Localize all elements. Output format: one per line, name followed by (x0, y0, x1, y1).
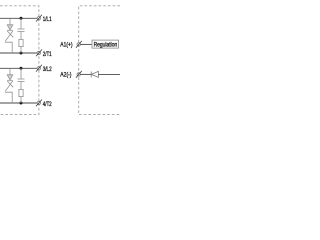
wire 4/T2 bottom (0, 102, 37, 104)
arrester F1 (block1 left branch) (5, 18, 13, 53)
wire diode to edge (98, 73, 120, 75)
wire 2/T1 bottom (0, 52, 37, 54)
junction node on wire 4/T2 (20, 102, 23, 105)
terminal 1/L1 (36, 15, 42, 22)
terminal A1(+) (76, 41, 82, 48)
junction node on wire 3/L2 (20, 67, 23, 70)
wire A2 to diode (80, 73, 91, 75)
wire 1/L1 top (0, 17, 37, 19)
varistor R2 (block2) (19, 89, 23, 103)
capacitor C1 (block1) (18, 18, 25, 39)
svg-text:A2(-): A2(-) (60, 73, 71, 79)
capacitor C2 (block2) (18, 68, 25, 89)
svg-text:1/L1: 1/L1 (43, 16, 52, 23)
svg-text:4/T2: 4/T2 (43, 101, 52, 108)
terminal A2(-) (76, 71, 82, 78)
right module dashed border (79, 6, 120, 115)
junction node on wire 1/L1 (20, 17, 23, 20)
svg-text:3/L2: 3/L2 (43, 66, 52, 73)
terminal 4/T2 (36, 100, 42, 107)
wire 3/L2 top (0, 67, 37, 69)
terminal 2/T1 (36, 50, 42, 57)
wire A1 to regulation (80, 43, 92, 45)
regulation box U1 (92, 40, 119, 48)
svg-text:A1(+): A1(+) (60, 42, 72, 48)
junction node on wire 2/T1 (20, 52, 23, 55)
svg-text:2/T1: 2/T1 (43, 51, 52, 58)
varistor R1 (block1) (19, 39, 23, 53)
terminal 3/L2 (36, 65, 42, 72)
left module dashed border (0, 6, 39, 115)
diode D1 (91, 71, 98, 77)
arrester F2 (block2 left branch) (5, 68, 13, 103)
svg-text:Regulation: Regulation (94, 43, 118, 49)
